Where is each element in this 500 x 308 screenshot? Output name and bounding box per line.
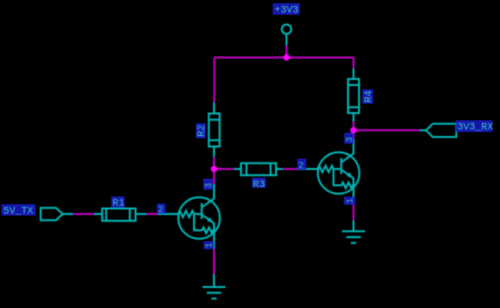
svg-text:1: 1	[205, 243, 215, 248]
svg-text:3V3_RX: 3V3_RX	[457, 123, 493, 134]
svg-text:2: 2	[298, 161, 303, 171]
svg-text:3: 3	[345, 137, 355, 142]
svg-text:1: 1	[346, 198, 356, 203]
svg-text:5V_TX: 5V_TX	[3, 207, 33, 218]
svg-text:R4: R4	[364, 90, 375, 102]
svg-text:+3V3: +3V3	[275, 6, 299, 17]
svg-text:R1: R1	[113, 199, 125, 210]
svg-text:R3: R3	[253, 180, 265, 191]
svg-text:R2: R2	[197, 125, 208, 137]
svg-text:3: 3	[204, 183, 214, 188]
svg-text:2: 2	[158, 205, 163, 215]
